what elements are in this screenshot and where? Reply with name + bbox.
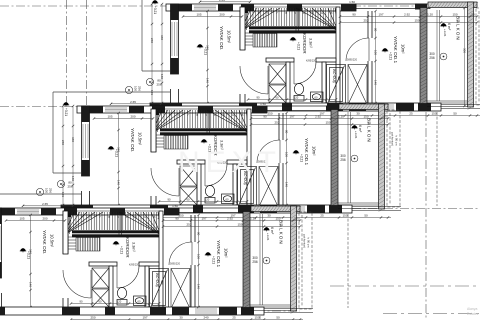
axis line E [383, 313, 480, 315]
svg-text:Estates: Estates [467, 312, 479, 316]
axis vertical J [86, 0, 88, 106]
svg-text:Alanya: Alanya [467, 307, 477, 311]
axis line D [330, 285, 480, 287]
right vertical dim near balcony [463, 7, 465, 107]
axis line B [0, 106, 390, 108]
axis vertical F [425, 112, 427, 320]
unit 1 top [125, 0, 480, 206]
axis line A [0, 5, 478, 7]
unit 2 middle [36, 92, 401, 308]
axis line C [0, 208, 480, 210]
svg-text:300: 300 [463, 48, 467, 53]
axis vertical I [66, 0, 68, 106]
unit 3 bottom [0, 194, 313, 320]
svg-text:NEXT: NEXT [178, 146, 282, 179]
axis line bottom wall [0, 310, 300, 312]
